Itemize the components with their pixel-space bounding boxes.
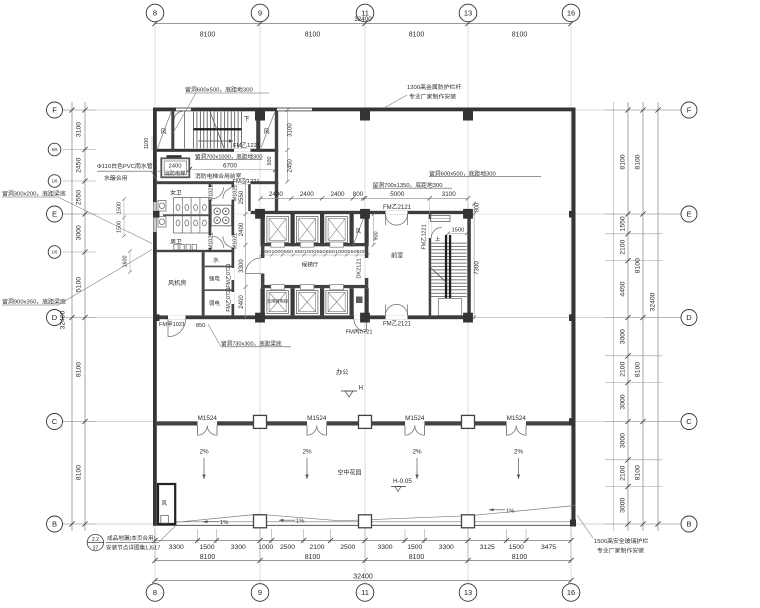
elevator door slot top 1: [271, 242, 285, 247]
extension tick left: [63, 213, 96, 215]
tick bottom segment: [402, 538, 407, 543]
elevator door slot bottom 2: [300, 285, 314, 290]
column top x468: [463, 108, 473, 121]
tick left segment: [82, 419, 87, 424]
tick top axis 8: [152, 21, 157, 26]
svg-text:8100: 8100: [305, 554, 321, 561]
svg-text:9: 9: [258, 588, 262, 597]
axis bubble 13 bottom: [459, 584, 477, 602]
svg-text:F: F: [687, 106, 692, 115]
column C hollow x468: [462, 415, 475, 428]
extension line bottom: [271, 529, 273, 543]
extension tick left: [63, 251, 96, 253]
axis bubble B left: [47, 516, 63, 532]
axis bubble E right: [681, 206, 697, 222]
extension line bottom: [467, 529, 469, 543]
lobby micro dimension line: [261, 254, 368, 256]
stair2 rail 1: [445, 235, 447, 298]
wall bank divider 2: [320, 214, 324, 247]
dimension line left total: [71, 102, 73, 531]
extension tick right: [605, 213, 681, 215]
svg-text:Φ110白色PVC雨水管: Φ110白色PVC雨水管: [97, 162, 153, 170]
svg-text:风: 风: [161, 129, 167, 136]
svg-text:E: E: [686, 210, 691, 219]
svg-text:8100: 8100: [76, 362, 83, 377]
urinals: [174, 244, 178, 250]
extension line bottom: [570, 529, 572, 543]
extension tick right: [605, 382, 662, 384]
wall bank divider bot 3: [350, 288, 354, 315]
tick office top: [466, 196, 470, 200]
svg-text:安装节点详图集1J517: 安装节点详图集1J517: [106, 544, 160, 552]
svg-text:M1021: M1021: [233, 233, 239, 249]
svg-text:候梯厅: 候梯厅: [302, 261, 319, 269]
extension tick left: [63, 421, 96, 423]
tick left segment: [82, 315, 87, 320]
pantry sinks: [214, 208, 221, 215]
toilet stalls women: [173, 198, 175, 215]
tick office top: [428, 196, 432, 200]
hydrant cell bottom right: [356, 297, 363, 304]
stair1 direction arrow: [198, 140, 233, 142]
axis bubble D right: [681, 310, 697, 326]
svg-text:B: B: [52, 520, 57, 529]
svg-text:M1524: M1524: [198, 415, 218, 422]
slope arrow 1pct b: [279, 519, 295, 521]
svg-text:2100: 2100: [309, 544, 324, 551]
wall office front: [526, 421, 572, 425]
stair2 landing box: [438, 299, 461, 316]
extension tick left: [63, 109, 96, 111]
column E x365: [360, 209, 370, 219]
door FM乙2121 bottom arcs: [386, 304, 408, 315]
svg-text:2100: 2100: [619, 465, 626, 480]
svg-text:留洞600x500，底距地300: 留洞600x500，底距地300: [185, 86, 253, 94]
svg-text:D: D: [686, 313, 692, 322]
svg-text:前室: 前室: [391, 252, 403, 260]
svg-text:37: 37: [93, 545, 99, 551]
axis bubble B right: [681, 516, 697, 532]
svg-text:8100: 8100: [634, 258, 641, 273]
tick right segment: [625, 315, 630, 320]
svg-text:3300: 3300: [231, 544, 246, 551]
dimension line bottom 8100s: [155, 560, 571, 562]
wall fanroom right: [202, 252, 205, 315]
svg-text:1550: 1550: [619, 216, 626, 231]
extension line bottom: [259, 529, 261, 543]
tick right bay: [640, 521, 645, 526]
tick right bay: [640, 419, 645, 424]
svg-text:5000: 5000: [390, 191, 405, 198]
svg-text:2500: 2500: [280, 544, 295, 551]
wall bank lobby top: [261, 243, 368, 246]
slope arrow 1pct a: [203, 521, 219, 523]
wall lobby left: [261, 246, 264, 258]
svg-text:3000: 3000: [76, 225, 83, 240]
pilaster right D: [569, 314, 576, 321]
tick bottom segment: [568, 538, 573, 543]
door gap FM丙0721: [354, 315, 367, 319]
door gap toilet right bot: [232, 236, 235, 249]
tick bottom segment: [195, 538, 200, 543]
tick top axis 16: [568, 21, 573, 26]
stair1 flight rail: [194, 128, 242, 130]
svg-text:1500: 1500: [199, 544, 214, 551]
interior chain 1100: [151, 136, 153, 150]
tick top axis 13: [465, 21, 470, 26]
grid line axis 9: [259, 22, 261, 585]
elevator door slot top 2: [300, 242, 314, 247]
wall bank left bot: [261, 288, 265, 315]
svg-text:留洞700x1350，底距地300: 留洞700x1350，底距地300: [373, 181, 443, 189]
column top x260: [255, 108, 265, 121]
svg-text:成品地漏(本页合用): 成品地漏(本页合用): [107, 534, 156, 542]
grid line axis 13: [467, 22, 469, 585]
svg-text:7300: 7300: [473, 261, 480, 275]
svg-text:风: 风: [264, 129, 270, 136]
svg-text:1500: 1500: [117, 221, 123, 233]
tick right bay: [640, 211, 645, 216]
slope arrow 1pct c: [489, 509, 505, 511]
svg-text:2400: 2400: [239, 295, 245, 309]
svg-text:3100: 3100: [442, 191, 457, 198]
door M1524 leaf arcs 2: [307, 426, 317, 436]
tick left total: [69, 521, 74, 526]
svg-text:8100: 8100: [634, 362, 641, 377]
column D x468: [463, 313, 473, 323]
wall stair1 bottom: [157, 149, 278, 152]
svg-text:1500: 1500: [117, 202, 123, 214]
fire elevator door bar: [167, 155, 182, 158]
tick right total: [655, 521, 660, 526]
grid line axis F right: [576, 109, 682, 111]
window slot left wall: [153, 202, 156, 232]
svg-text:8100: 8100: [200, 554, 216, 561]
tick bottom segment: [152, 538, 157, 543]
tick right segment: [625, 107, 630, 112]
equipment room bottom left: [158, 484, 175, 524]
door arc wc bot b: [223, 236, 235, 248]
tick office top: [320, 196, 324, 200]
grid line axis D right: [576, 317, 682, 319]
door arc fanshaft1: [174, 112, 182, 120]
svg-text:3100: 3100: [76, 122, 83, 137]
axis bubble 5/6 left: [48, 143, 61, 156]
pantry box: [211, 205, 231, 226]
svg-text:2400: 2400: [239, 222, 245, 236]
wall bank right bot: [365, 288, 369, 315]
svg-text:1000: 1000: [258, 544, 273, 551]
door gap corridor: [234, 181, 251, 184]
tick left total: [69, 107, 74, 112]
door arc fanroom: [168, 319, 186, 337]
svg-text:3300: 3300: [239, 259, 245, 273]
svg-text:13: 13: [464, 588, 472, 597]
tick bottom segment: [465, 538, 470, 543]
extension line bottom: [424, 529, 426, 543]
elevator door slot bottom 3: [330, 285, 344, 290]
stair1 treads: [193, 112, 195, 149]
extension tick right: [605, 523, 681, 525]
tick bottom bay: [465, 558, 470, 563]
extension line bottom: [197, 529, 199, 543]
svg-text:上: 上: [435, 235, 441, 243]
detail bubble drain: [87, 534, 103, 550]
door gap stair2: [429, 219, 432, 238]
door gap toilet right top: [232, 187, 235, 200]
wash basins women: [158, 201, 166, 212]
tick bottom segment: [328, 538, 333, 543]
svg-text:E: E: [52, 210, 57, 219]
extension tick right: [605, 421, 681, 423]
door arc lobby left: [246, 258, 262, 274]
column B hollow x260: [254, 515, 267, 528]
svg-text:16: 16: [567, 9, 575, 18]
elevator car top 1: [267, 217, 289, 243]
axis bubble D left: [47, 310, 63, 326]
wall toilet vest left: [209, 184, 212, 251]
tick office top: [289, 196, 293, 200]
tick left segment: [82, 249, 87, 254]
dimension line bottom total: [155, 580, 571, 582]
svg-text:2450: 2450: [76, 158, 83, 173]
elevator car top 2: [296, 217, 318, 243]
svg-text:9: 9: [258, 9, 262, 18]
svg-text:B: B: [686, 520, 691, 529]
tick left segment: [82, 178, 87, 183]
svg-text:M1524: M1524: [507, 415, 527, 422]
svg-text:留洞900x350，底距梁底: 留洞900x350，底距梁底: [2, 298, 66, 306]
svg-text:H: H: [359, 385, 364, 392]
wall vestibule right: [429, 214, 432, 317]
door arc wc top b: [223, 187, 235, 199]
svg-text:500: 500: [267, 157, 273, 166]
svg-text:专业厂家制作安装: 专业厂家制作安装: [409, 93, 456, 101]
svg-text:8100: 8100: [409, 554, 425, 561]
extension tick left: [63, 149, 96, 151]
axis bubble 9 top: [251, 4, 269, 22]
door M1524 leaf arcs 1: [198, 426, 208, 436]
svg-text:11: 11: [361, 588, 369, 597]
svg-text:850: 850: [196, 323, 205, 329]
stair2 top platform: [431, 216, 451, 222]
elevator car top 3: [326, 217, 348, 243]
wash basins men: [158, 217, 166, 228]
svg-text:M1524: M1524: [405, 415, 425, 422]
tick bottom segment: [504, 538, 509, 543]
svg-text:32400: 32400: [353, 574, 373, 581]
svg-text:下: 下: [244, 116, 250, 123]
pilaster right E: [569, 211, 576, 218]
svg-text:办公: 办公: [336, 367, 349, 376]
svg-text:水: 水: [213, 256, 219, 264]
fan shaft 2 diagonal: [261, 113, 274, 148]
svg-text:FM乙0721: FM乙0721: [225, 287, 232, 311]
wall office front: [327, 421, 406, 425]
fan shaft 1 diagonal: [158, 112, 172, 149]
door FM乙2121 top arcs: [386, 214, 408, 225]
axis bubble F right: [681, 102, 697, 118]
svg-text:8100: 8100: [200, 32, 216, 39]
dimension line office top: [261, 197, 469, 199]
door gap elec top: [232, 268, 235, 280]
svg-text:留洞600x500，底距地300: 留洞600x500，底距地300: [429, 169, 496, 177]
tick bottom segment: [269, 538, 274, 543]
window slot top wall 1: [176, 108, 191, 111]
svg-text:1%: 1%: [220, 520, 228, 526]
svg-text:5/6: 5/6: [52, 147, 58, 152]
svg-text:8100: 8100: [76, 465, 83, 480]
door arc FM丙0721: [354, 319, 367, 332]
svg-text:2100: 2100: [619, 361, 626, 376]
tick bottom segment: [257, 538, 262, 543]
svg-text:2100: 2100: [619, 239, 626, 254]
axis bubble C left: [47, 414, 63, 430]
wall stair1 right divider: [256, 111, 260, 152]
grid line axis B right: [576, 523, 682, 525]
tick right segment: [625, 419, 630, 424]
tick bottom bay: [362, 558, 367, 563]
axis bubble 11 top: [356, 4, 374, 22]
grid line axis E right: [576, 213, 682, 215]
interior chain x287: [287, 108, 289, 182]
tick bottom segment: [362, 538, 367, 543]
svg-text:2%: 2%: [412, 449, 422, 456]
svg-text:FM乙2121: FM乙2121: [383, 321, 412, 328]
wall water room divider: [203, 266, 231, 268]
svg-text:3000: 3000: [619, 498, 626, 513]
wall office front: [157, 421, 198, 425]
extension tick right: [605, 109, 681, 111]
level mark H office: [341, 390, 357, 392]
svg-text:16: 16: [567, 588, 575, 597]
axis bubble 11 bottom: [356, 584, 374, 602]
tick bottom total: [568, 578, 573, 583]
door gap vest left top: [209, 187, 212, 200]
svg-text:3000: 3000: [619, 329, 626, 344]
extension line bottom bay: [154, 543, 156, 563]
tick right segment: [625, 211, 630, 216]
extension line bottom: [525, 529, 527, 543]
tick office top: [361, 196, 365, 200]
svg-text:风: 风: [356, 228, 362, 235]
stair2 break line: [430, 267, 445, 281]
extension tick right: [605, 355, 662, 357]
extension tick right: [605, 317, 681, 319]
svg-text:2400: 2400: [169, 163, 182, 169]
wall elec divider: [203, 289, 231, 291]
door gap FM乙2121 top: [386, 211, 408, 214]
fan cell bank diagonal: [353, 215, 365, 246]
dimension line left segments: [84, 102, 86, 531]
column D x260: [255, 313, 265, 323]
wall core topright vertical: [275, 111, 278, 212]
elevator car bottom 3: [326, 291, 348, 314]
svg-text:5100: 5100: [76, 277, 83, 292]
svg-text:3300: 3300: [377, 544, 392, 551]
svg-text:32400: 32400: [649, 292, 656, 311]
tick right segment: [625, 457, 630, 462]
tick top axis 9: [257, 21, 262, 26]
tick right segment: [625, 353, 630, 358]
svg-text:6501000550 6501000550650100055: 6501000550 65010005506501000550600: [262, 249, 367, 254]
extension line bottom bay: [467, 543, 469, 563]
stair2 treads: [431, 242, 467, 244]
svg-text:水簸合用: 水簸合用: [104, 174, 128, 182]
elevator door slot top 3: [330, 242, 344, 247]
svg-text:32400: 32400: [60, 310, 67, 329]
column C hollow x260: [254, 415, 267, 428]
extension line office b: [467, 198, 469, 214]
dimension line right total: [657, 102, 659, 531]
extension tick right: [605, 459, 662, 461]
wall outer right: [572, 108, 576, 526]
tick left segment: [82, 211, 87, 216]
parapet edge bottom outer: [153, 524, 576, 526]
axis bubble C right: [681, 414, 697, 430]
tick left segment: [82, 521, 87, 526]
svg-text:空中花园: 空中花园: [338, 469, 362, 477]
grid line axis 8: [154, 22, 156, 585]
grid line axis D interior: [471, 317, 572, 319]
extension line bottom: [404, 529, 406, 543]
wall fan shaft left divider: [171, 110, 174, 152]
door gap elec bot: [232, 292, 235, 304]
tick office top: [363, 196, 367, 200]
svg-text:FM甲1021: FM甲1021: [159, 321, 185, 328]
svg-text:留洞730x300，底距梁底: 留洞730x300，底距梁底: [221, 340, 282, 348]
extension line bottom bay: [364, 543, 366, 563]
extension line bottom bay: [570, 543, 572, 563]
fire elevator shaft: [161, 158, 189, 177]
extension line bottom: [154, 529, 156, 543]
door arc wc top: [212, 187, 224, 199]
svg-text:消防电梯合用前室: 消防电梯合用前室: [195, 172, 242, 180]
door arc stair2: [431, 228, 442, 239]
door gap stair1: [234, 149, 251, 152]
svg-text:FM乙0721: FM乙0721: [225, 263, 232, 287]
column B hollow x365: [359, 515, 372, 528]
svg-text:6700: 6700: [223, 163, 238, 170]
svg-text:1%: 1%: [296, 519, 304, 525]
svg-text:女卫: 女卫: [170, 189, 182, 197]
svg-text:F: F: [52, 106, 57, 115]
axis bubble 16 top: [562, 4, 580, 22]
column B hollow x468: [462, 515, 475, 528]
tick right total: [655, 107, 660, 112]
svg-text:3000: 3000: [619, 394, 626, 409]
interior chain x245: [245, 181, 247, 318]
wall bank divider bot 1: [291, 288, 295, 315]
window slot top wall 2: [277, 108, 312, 111]
elevator car bottom 1: [267, 291, 289, 314]
svg-text:900: 900: [374, 231, 380, 240]
svg-text:8100: 8100: [409, 32, 425, 39]
svg-text:2550: 2550: [239, 190, 245, 204]
door gap vest left bot: [209, 236, 212, 249]
extension tick left: [63, 523, 96, 525]
svg-text:3100: 3100: [288, 123, 294, 137]
svg-text:2400: 2400: [269, 191, 284, 198]
pilaster left E: [153, 211, 160, 218]
wall toilet bottom: [157, 250, 234, 252]
wall outer left: [153, 108, 157, 526]
extension line bottom: [216, 529, 218, 543]
svg-text:C: C: [686, 417, 692, 426]
svg-text:8100: 8100: [634, 465, 641, 480]
svg-text:800: 800: [353, 191, 364, 198]
extension tick right: [605, 486, 662, 488]
